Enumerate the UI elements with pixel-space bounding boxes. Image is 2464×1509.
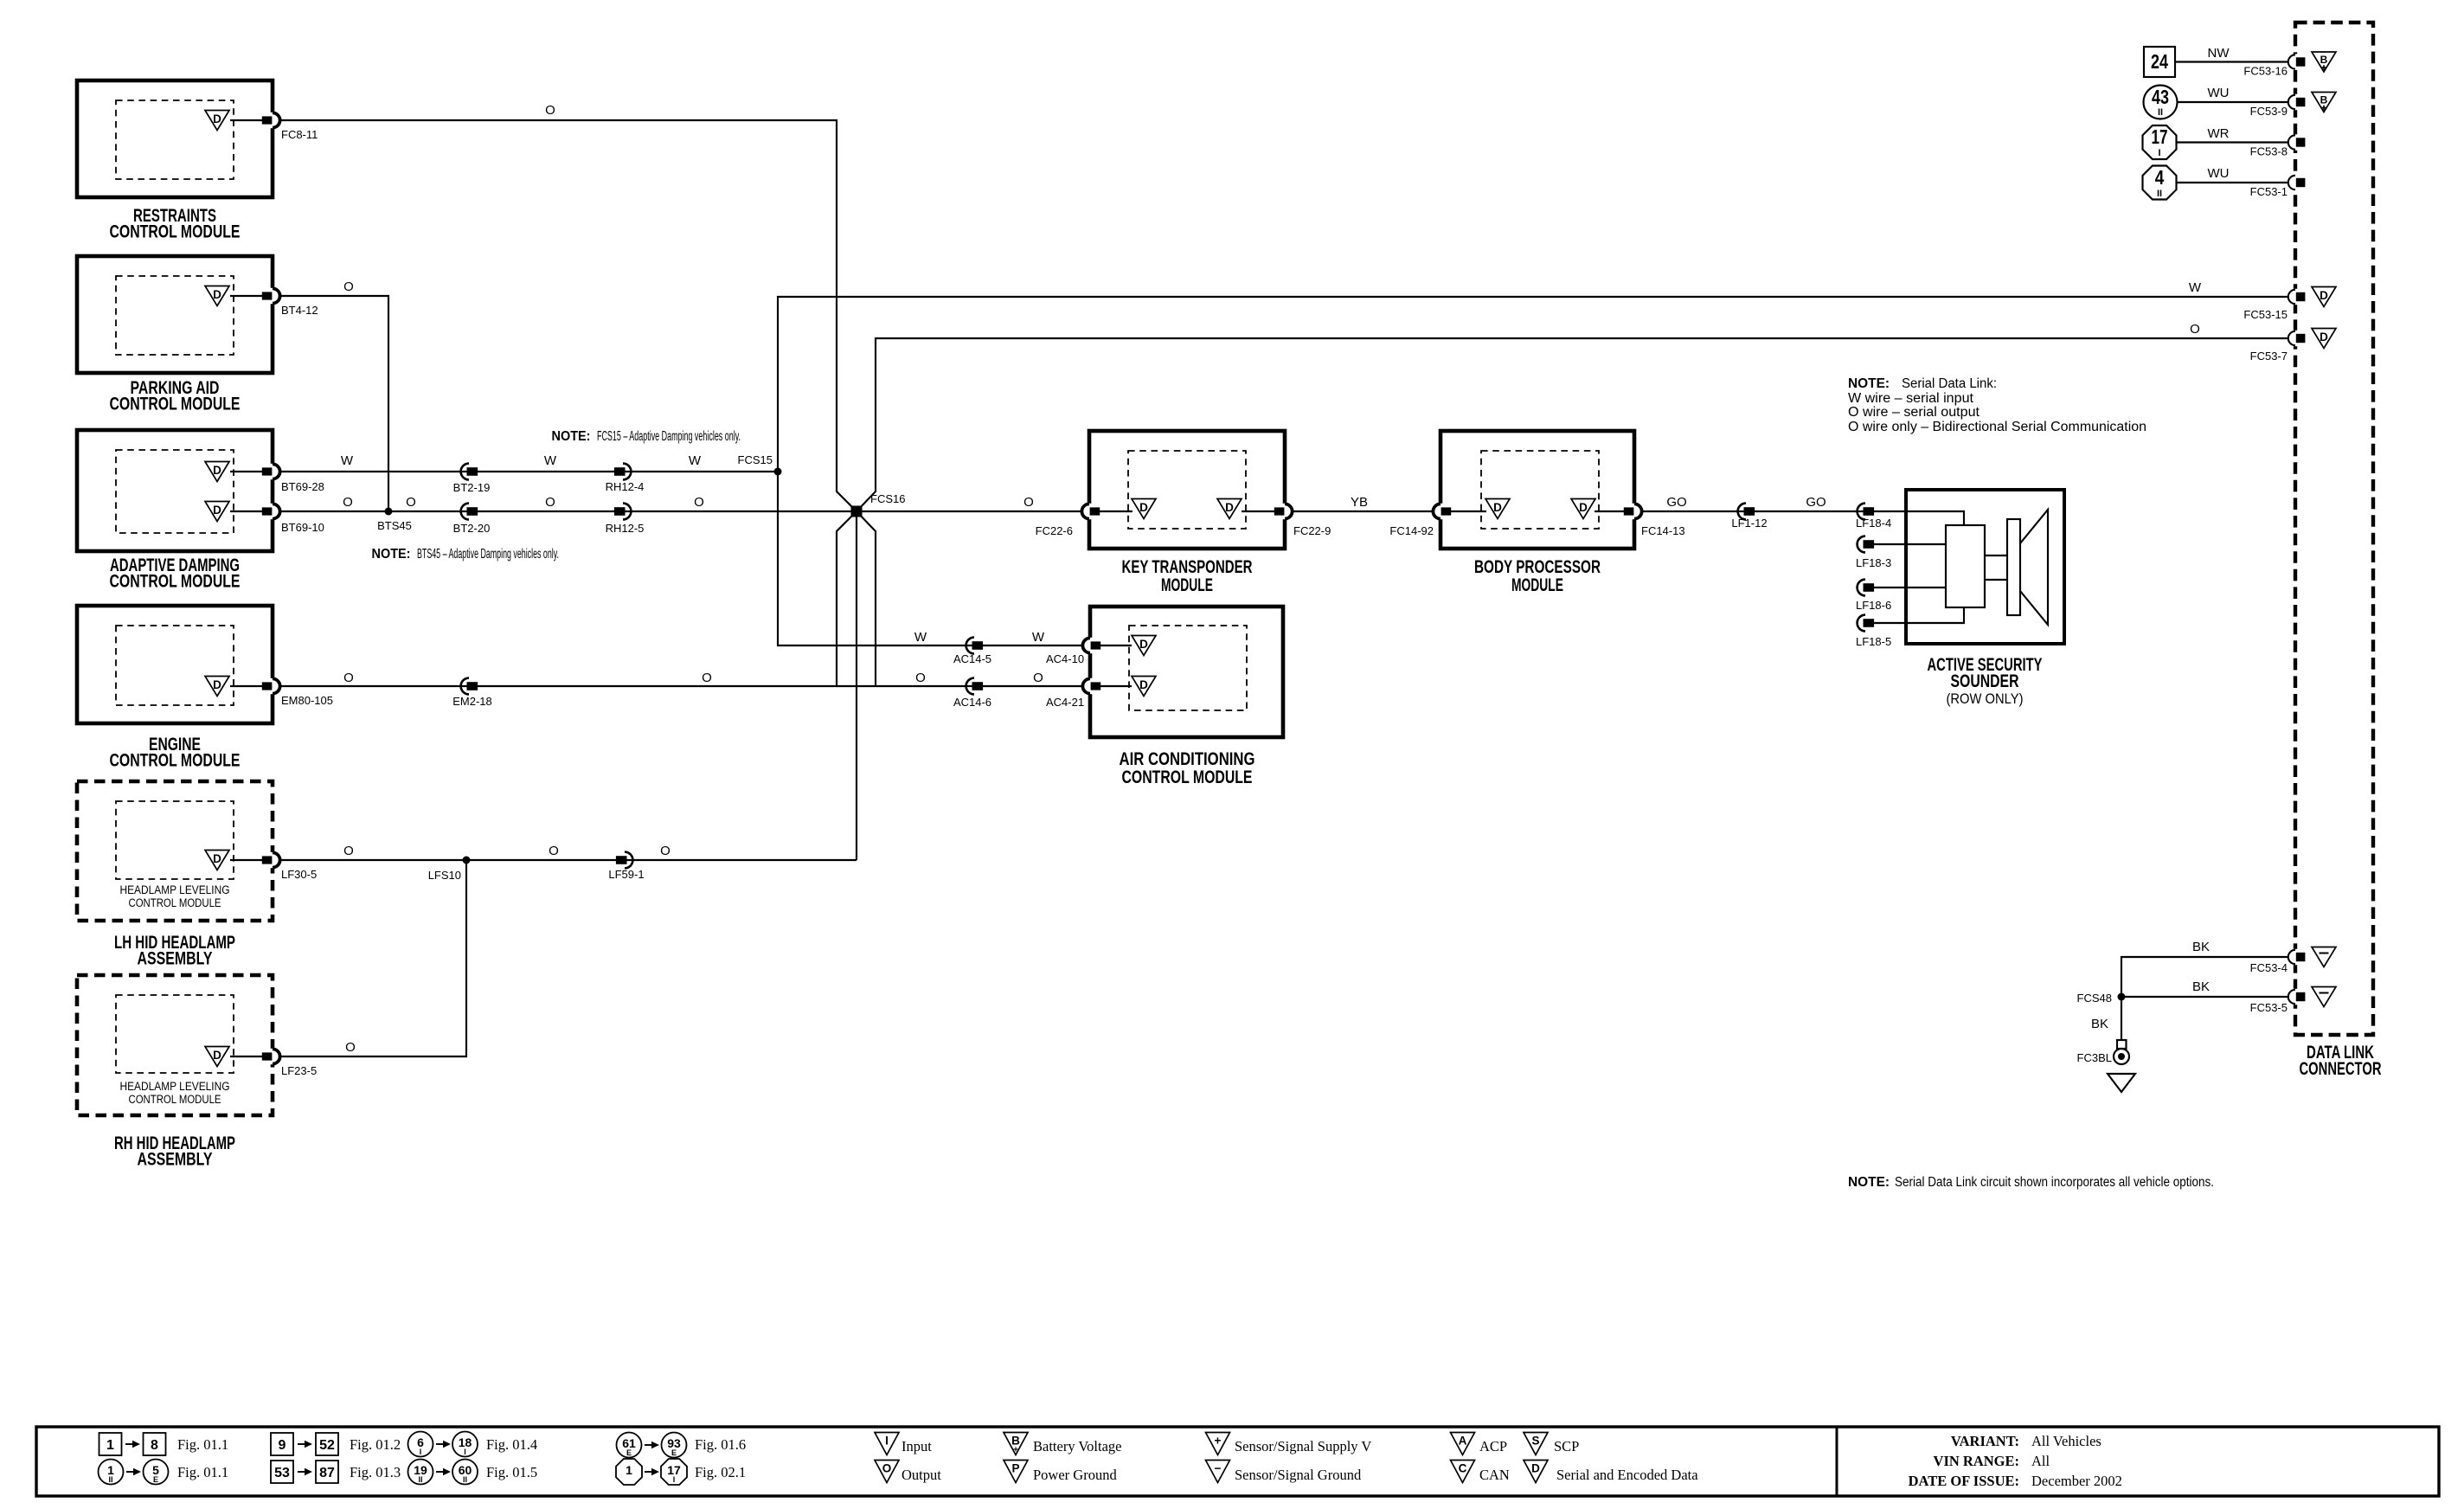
- svg-text:BK: BK: [2091, 1017, 2108, 1031]
- svg-text:W: W: [341, 453, 354, 468]
- svg-text:LF18-3: LF18-3: [1856, 556, 1891, 569]
- svg-text:SCP: SCP: [1554, 1438, 1579, 1454]
- legend symbol sensor supply: [1206, 1433, 1372, 1455]
- connector RH12-4: [614, 464, 632, 480]
- adaptive damping control module: [77, 430, 280, 592]
- svg-text:BT69-10: BT69-10: [281, 521, 324, 534]
- svg-text:BTS45 – Adaptive Damping vehic: BTS45 – Adaptive Damping vehicles only.: [417, 547, 559, 562]
- connector LF1-12: [1738, 504, 1755, 520]
- LH HID headlamp assembly (headlamp leveling control module): [77, 781, 280, 969]
- svg-text:Fig. 01.1: Fig. 01.1: [177, 1464, 228, 1480]
- svg-text:WU: WU: [2208, 166, 2230, 181]
- svg-text:Output: Output: [902, 1467, 941, 1483]
- svg-text:W wire – serial input: W wire – serial input: [1848, 391, 1974, 406]
- svg-text:BODY PROCESSOR: BODY PROCESSOR: [1474, 557, 1601, 577]
- sounder speaker: [2007, 519, 2020, 615]
- svg-text:Fig. 01.2: Fig. 01.2: [350, 1436, 401, 1453]
- svg-text:MODULE: MODULE: [1511, 575, 1563, 595]
- key transponder module: [1081, 431, 1292, 595]
- svg-text:Fig. 01.3: Fig. 01.3: [350, 1464, 401, 1480]
- connector 17-I (octagon): [2143, 125, 2177, 159]
- engine control module: [77, 606, 280, 771]
- svg-text:O: O: [549, 844, 559, 858]
- svg-text:CONTROL MODULE: CONTROL MODULE: [110, 572, 241, 592]
- svg-text:VARIANT:: VARIANT:: [1951, 1433, 2019, 1449]
- svg-text:43: 43: [2152, 86, 2169, 108]
- svg-text:BK: BK: [2192, 979, 2210, 994]
- svg-text:LF18-4: LF18-4: [1856, 517, 1891, 530]
- svg-text:O: O: [545, 495, 555, 510]
- svg-text:FC53-4: FC53-4: [2250, 961, 2288, 974]
- svg-text:D: D: [1531, 1462, 1540, 1475]
- connector 4-II (octagon): [2143, 166, 2177, 200]
- svg-text:A: A: [1459, 1435, 1467, 1448]
- wire splice FCS16 down to headlamp leveling O wire: [856, 511, 857, 860]
- legend symbol power ground: [1004, 1461, 1117, 1484]
- svg-text:NOTE:: NOTE:: [1848, 376, 1890, 391]
- legend symbol SCP: [1524, 1433, 1579, 1455]
- svg-text:RH12-5: RH12-5: [606, 522, 645, 535]
- svg-text:Serial Data Link:: Serial Data Link:: [1902, 376, 1997, 391]
- svg-text:SOUNDER: SOUNDER: [1951, 671, 2019, 691]
- legend symbol CAN: [1451, 1461, 1510, 1484]
- pin FC53-1: [2288, 175, 2306, 190]
- svg-text:II: II: [2158, 107, 2163, 118]
- svg-text:O: O: [343, 671, 354, 685]
- active security sounder: [1906, 490, 2064, 707]
- svg-text:Power Ground: Power Ground: [1033, 1467, 1117, 1483]
- wire GO body processor FC14-13 to active security sounder LF18-4: [1634, 510, 1906, 512]
- connector LF18-6 pigtail: [1874, 587, 1906, 588]
- svg-text:O: O: [343, 279, 354, 294]
- svg-text:LFS10: LFS10: [428, 869, 461, 882]
- svg-text:FC8-11: FC8-11: [281, 128, 318, 141]
- connector LF18-3 pigtail: [1874, 543, 1906, 545]
- svg-text:FCS15 – Adaptive Damping vehic: FCS15 – Adaptive Damping vehicles only.: [597, 429, 741, 444]
- svg-text:NOTE:: NOTE:: [1848, 1175, 1890, 1190]
- svg-text:Fig. 01.1: Fig. 01.1: [177, 1436, 228, 1453]
- svg-text:LF18-6: LF18-6: [1856, 599, 1891, 612]
- svg-text:I: I: [464, 1448, 466, 1456]
- svg-text:BK: BK: [2192, 940, 2210, 954]
- svg-text:W: W: [914, 630, 927, 645]
- svg-text:I: I: [885, 1435, 889, 1448]
- svg-text:LF1-12: LF1-12: [1731, 517, 1767, 530]
- eyelet FC3BL: [2077, 1040, 2129, 1064]
- svg-text:KEY TRANSPONDER: KEY TRANSPONDER: [1122, 557, 1253, 577]
- svg-text:FC14-13: FC14-13: [1641, 524, 1685, 537]
- svg-text:FC53-16: FC53-16: [2243, 65, 2288, 78]
- svg-text:LF23-5: LF23-5: [281, 1064, 317, 1077]
- connector BT2-20: [461, 504, 478, 520]
- connector RH12-5: [614, 504, 632, 520]
- svg-text:FC22-9: FC22-9: [1293, 524, 1331, 537]
- svg-text:CONTROL MODULE: CONTROL MODULE: [110, 222, 241, 242]
- wire BK FC53-4 ground leg down to eyelet FC3BL: [2121, 957, 2295, 1040]
- wire WU connector 43 to FC53-9: [2178, 101, 2295, 103]
- pin FC53-4: [2288, 949, 2306, 965]
- wire splice FCS16 lower-left arm to engine O wire: [837, 511, 857, 686]
- svg-text:FC53-5: FC53-5: [2250, 1001, 2288, 1014]
- svg-text:FC3BL: FC3BL: [2077, 1051, 2112, 1064]
- svg-text:Input: Input: [902, 1438, 932, 1454]
- pin FC53-9: [2288, 94, 2306, 110]
- wire O RH headlamp LF23-5 up to splice LFS10: [279, 860, 466, 1056]
- svg-text:O wire only – Bidirectional Se: O wire only – Bidirectional Serial Commu…: [1848, 420, 2146, 434]
- wire WR connector 17 to FC53-8: [2176, 141, 2295, 143]
- legend symbol battery voltage: [1004, 1433, 1122, 1455]
- wire BK FC53-5 from splice FCS48: [2121, 996, 2295, 998]
- svg-text:E: E: [626, 1448, 632, 1457]
- svg-text:FC22-6: FC22-6: [1036, 524, 1073, 537]
- svg-text:All Vehicles: All Vehicles: [2031, 1433, 2101, 1449]
- splice FCS15: [774, 468, 782, 476]
- svg-text:FC53-8: FC53-8: [2250, 145, 2288, 158]
- svg-text:+: +: [1215, 1435, 1222, 1448]
- wire splice FCS16 lower-right arm to air conditioning O wire: [857, 511, 876, 686]
- svg-text:AC14-6: AC14-6: [953, 696, 991, 709]
- svg-text:O: O: [915, 671, 926, 685]
- svg-text:O: O: [2190, 322, 2200, 337]
- wire O serial data: splice FCS16 up to data link connector FC53-7: [857, 338, 2295, 511]
- svg-text:O: O: [702, 671, 712, 685]
- connector AC14-5: [966, 638, 984, 654]
- body processor module: [1433, 431, 1641, 595]
- legend figure references group 3: [408, 1432, 538, 1485]
- svg-text:CONTROL MODULE: CONTROL MODULE: [110, 751, 241, 771]
- svg-text:AC4-10: AC4-10: [1046, 652, 1084, 665]
- svg-text:BTS45: BTS45: [377, 519, 412, 532]
- legend symbol output: [875, 1461, 941, 1484]
- svg-text:1: 1: [106, 1438, 114, 1453]
- svg-text:FC53-7: FC53-7: [2250, 350, 2288, 363]
- svg-text:Fig. 01.6: Fig. 01.6: [695, 1436, 746, 1453]
- legend bar: [36, 1427, 2439, 1496]
- svg-text:I: I: [420, 1448, 422, 1456]
- svg-text:E: E: [671, 1448, 677, 1457]
- svg-text:E: E: [153, 1475, 158, 1484]
- svg-text:RH12-4: RH12-4: [606, 480, 645, 493]
- wire W adaptive damping BT69-28 to splice FCS15: [279, 471, 778, 472]
- legend variant block: [1909, 1433, 2122, 1489]
- svg-text:ACP: ACP: [1479, 1438, 1507, 1454]
- svg-text:O: O: [694, 495, 704, 510]
- svg-text:CAN: CAN: [1479, 1467, 1510, 1483]
- connector BT2-19: [461, 464, 478, 480]
- svg-text:24: 24: [2151, 50, 2168, 73]
- svg-text:FCS15: FCS15: [738, 453, 773, 466]
- pin FC53-5: [2288, 989, 2306, 1005]
- svg-text:AIR CONDITIONING: AIR CONDITIONING: [1120, 749, 1255, 769]
- svg-text:+: +: [1013, 1446, 1018, 1455]
- svg-text:ASSEMBLY: ASSEMBLY: [138, 949, 213, 969]
- pin FC53-15: [2288, 289, 2306, 305]
- legend symbol input: [875, 1433, 932, 1455]
- svg-text:NOTE:: NOTE:: [552, 429, 591, 444]
- svg-text:−: −: [1215, 1462, 1222, 1475]
- splice FCS16: [851, 506, 863, 517]
- svg-text:EM2-18: EM2-18: [452, 695, 492, 708]
- connector EM2-18: [461, 678, 478, 695]
- wire YB key transponder FC22-9 to body processor FC14-92: [1285, 510, 1441, 512]
- svg-text:BT2-20: BT2-20: [453, 522, 491, 535]
- svg-text:Sensor/Signal Supply V: Sensor/Signal Supply V: [1235, 1438, 1371, 1454]
- svg-text:87: 87: [319, 1466, 335, 1480]
- pin FC53-7: [2288, 331, 2306, 346]
- legend symbol ACP: [1451, 1433, 1508, 1455]
- svg-text:P: P: [1011, 1462, 1019, 1475]
- svg-text:EM80-105: EM80-105: [281, 694, 333, 707]
- svg-text:VIN RANGE:: VIN RANGE:: [1934, 1453, 2019, 1469]
- svg-text:WR: WR: [2208, 126, 2230, 141]
- data link connector dashed box: [2295, 22, 2373, 1035]
- svg-text:MODULE: MODULE: [1161, 575, 1213, 595]
- svg-text:W: W: [1032, 630, 1045, 645]
- svg-text:17: 17: [2152, 125, 2168, 148]
- svg-text:W: W: [544, 453, 557, 468]
- svg-text:CONNECTOR: CONNECTOR: [2300, 1059, 2382, 1079]
- wire O engine control EM80-105 to air conditioning AC4-21: [279, 685, 1090, 687]
- svg-text:HEADLAMP LEVELING: HEADLAMP LEVELING: [120, 1080, 230, 1093]
- svg-text:LF18-5: LF18-5: [1856, 635, 1891, 648]
- svg-text:W: W: [2189, 280, 2202, 295]
- svg-text:ASSEMBLY: ASSEMBLY: [138, 1150, 213, 1170]
- svg-text:December 2002: December 2002: [2031, 1473, 2122, 1489]
- svg-text:O: O: [882, 1462, 892, 1475]
- svg-text:NW: NW: [2208, 46, 2230, 61]
- svg-text:LF59-1: LF59-1: [608, 868, 644, 881]
- svg-text:O: O: [1033, 671, 1043, 685]
- connector LF59-1: [616, 852, 633, 869]
- wire NW connector 24 to FC53-16: [2175, 61, 2295, 62]
- splice FCS48: [2118, 993, 2126, 1001]
- svg-text:II: II: [2157, 189, 2162, 199]
- svg-text:O: O: [345, 1040, 356, 1055]
- svg-text:I: I: [2158, 148, 2160, 158]
- svg-text:BT4-12: BT4-12: [281, 304, 318, 317]
- svg-text:53: 53: [274, 1466, 290, 1480]
- connector 24 (square): [2144, 47, 2175, 77]
- svg-text:CONTROL MODULE: CONTROL MODULE: [129, 1093, 221, 1106]
- connector AC14-6: [966, 678, 984, 695]
- legend symbol serial and encoded data: [1524, 1461, 1698, 1484]
- wire WU connector 4 to FC53-1: [2176, 182, 2295, 183]
- ground symbol: [2108, 1074, 2135, 1092]
- svg-text:Serial Data Link circuit shown: Serial Data Link circuit shown incorpora…: [1895, 1175, 2214, 1190]
- svg-text:BT69-28: BT69-28: [281, 480, 324, 493]
- svg-text:FC53-1: FC53-1: [2250, 185, 2288, 198]
- svg-text:GO: GO: [1806, 495, 1826, 510]
- sounder amplifier block: [1946, 525, 1985, 607]
- legend figure references group 1: [99, 1433, 229, 1485]
- svg-text:O: O: [343, 844, 354, 858]
- svg-text:(ROW ONLY): (ROW ONLY): [1947, 690, 2024, 707]
- svg-text:CONTROL MODULE: CONTROL MODULE: [110, 395, 241, 414]
- svg-text:FCS16: FCS16: [870, 492, 905, 505]
- svg-text:Sensor/Signal Ground: Sensor/Signal Ground: [1235, 1467, 1362, 1483]
- svg-text:Battery Voltage: Battery Voltage: [1033, 1438, 1122, 1454]
- legend figure references group 4: [616, 1433, 746, 1486]
- svg-text:FC53-15: FC53-15: [2243, 308, 2288, 321]
- splice BTS45: [385, 508, 393, 516]
- svg-text:1: 1: [626, 1463, 632, 1477]
- svg-text:Fig. 01.5: Fig. 01.5: [486, 1464, 537, 1480]
- svg-text:YB: YB: [1351, 495, 1368, 510]
- svg-text:O: O: [545, 103, 555, 118]
- svg-text:4: 4: [2155, 166, 2165, 189]
- svg-text:GO: GO: [1666, 495, 1686, 510]
- svg-text:BT2-19: BT2-19: [453, 481, 491, 494]
- svg-text:W: W: [689, 453, 702, 468]
- splice LFS10: [463, 857, 471, 864]
- svg-text:NOTE:: NOTE:: [372, 547, 411, 562]
- svg-text:II: II: [418, 1475, 422, 1484]
- svg-text:HEADLAMP LEVELING: HEADLAMP LEVELING: [120, 883, 230, 896]
- connector 43-II (circle): [2144, 86, 2178, 119]
- air conditioning control module: [1082, 607, 1283, 787]
- svg-text:Fig. 02.1: Fig. 02.1: [695, 1464, 746, 1480]
- svg-text:FCS48: FCS48: [2077, 992, 2112, 1005]
- restraints control module: [77, 80, 280, 242]
- RH HID headlamp assembly (headlamp leveling control module): [77, 975, 280, 1170]
- svg-text:O: O: [343, 495, 353, 510]
- wire W serial data: splice FCS15 riser to FC53-15 and down to air conditioning AC4-10: [778, 297, 2295, 645]
- svg-text:52: 52: [319, 1438, 335, 1453]
- svg-text:DATE OF ISSUE:: DATE OF ISSUE:: [1909, 1473, 2019, 1489]
- wire O adaptive damping BT69-10 through BTS45 and FCS16 to key transponder FC22-6: [279, 510, 1089, 512]
- svg-text:O wire – serial output: O wire – serial output: [1848, 405, 1980, 420]
- wire FC8-11 serial data: restraints to splice FCS16: [279, 120, 857, 511]
- svg-text:LF30-5: LF30-5: [281, 868, 317, 881]
- svg-text:CONTROL MODULE: CONTROL MODULE: [129, 896, 221, 909]
- wire O parking aid BT4-12 down to splice BTS45: [279, 296, 388, 511]
- svg-text:C: C: [1459, 1462, 1467, 1475]
- svg-text:O: O: [406, 495, 416, 510]
- svg-text:II: II: [463, 1475, 467, 1484]
- svg-text:O: O: [1023, 495, 1034, 510]
- svg-text:8: 8: [151, 1438, 158, 1453]
- svg-text:All: All: [2031, 1453, 2050, 1469]
- svg-text:Serial and Encoded Data: Serial and Encoded Data: [1556, 1467, 1698, 1483]
- svg-text:9: 9: [279, 1438, 286, 1453]
- svg-text:WU: WU: [2208, 86, 2230, 100]
- pin FC53-8: [2288, 134, 2306, 150]
- svg-text:S: S: [1531, 1435, 1539, 1448]
- svg-text:AC4-21: AC4-21: [1046, 696, 1084, 709]
- svg-text:FC53-9: FC53-9: [2250, 105, 2288, 118]
- legend symbol sensor ground: [1206, 1461, 1362, 1484]
- svg-text:CONTROL MODULE: CONTROL MODULE: [1122, 767, 1253, 787]
- svg-text:O: O: [660, 844, 671, 858]
- wire O LH headlamp LF30-5 through LFS10 and LF59-1 to FCS16 riser: [279, 859, 857, 861]
- connector LF18-5 pigtail: [1874, 622, 1906, 624]
- parking aid control module: [77, 256, 280, 414]
- connector LF18-4: [1858, 504, 1875, 520]
- legend figure references group 2: [271, 1433, 401, 1483]
- pin FC53-16: [2288, 54, 2306, 69]
- svg-text:FC14-92: FC14-92: [1389, 524, 1434, 537]
- svg-text:Fig. 01.4: Fig. 01.4: [486, 1436, 537, 1453]
- svg-text:AC14-5: AC14-5: [953, 652, 991, 665]
- svg-text:II: II: [108, 1475, 112, 1484]
- svg-text:I: I: [673, 1475, 676, 1484]
